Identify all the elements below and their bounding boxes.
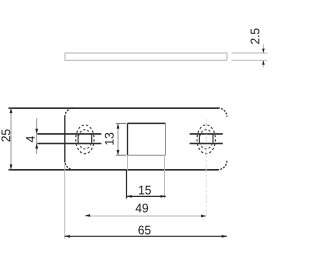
square cutout left edge [127, 123, 129, 155]
dim 65 arrow left [65, 235, 70, 238]
front view left edge [64, 116, 66, 162]
dim 49 label [136, 204, 148, 213]
right hole inner bore (dashed obround) [199, 130, 213, 149]
dim 2.5 extension line bottom [232, 59, 268, 61]
left hole inner bore (dashed obround) [78, 130, 92, 149]
square cutout right edge [165, 123, 167, 155]
dim 25 dimension line [10, 108, 12, 170]
dim 65 arrow right [222, 235, 227, 238]
square cutout bottom edge [128, 154, 166, 156]
left hole slot line bottom (serves as 4-dim extension) [37, 143, 101, 145]
right hole vertical centerline (extends to 49 dim) [205, 119, 207, 216]
dim 65 extension left (continuation of plate left edge) [64, 163, 66, 239]
dim 65 dimension line [65, 235, 227, 237]
right hole bore side walls (visible through slot) [198, 134, 200, 144]
dim 25 label [1, 129, 10, 141]
corner arc bottom-left [65, 161, 74, 170]
dim 2.5 label [251, 28, 260, 43]
square cutout top edge [128, 122, 166, 124]
dim 15 arrow right [161, 195, 166, 198]
dim 13 arrow top [117, 123, 120, 128]
dim 15 extension right [164, 155, 166, 198]
corner arc top-right [218, 108, 227, 117]
dim 15 dimension line [127, 195, 166, 197]
dim 49 arrow right [201, 215, 206, 218]
left hole bore side walls (visible through slot) [77, 134, 79, 144]
dim 13 arrow bottom [117, 150, 120, 155]
right hole slot line top [190, 133, 223, 135]
left hole slot line top (serves as 4-dim extension) [37, 133, 101, 135]
dim 4 label [26, 136, 35, 142]
dim 65 label [138, 226, 150, 235]
dim 4 arrow bottom (outside, pointing up) [35, 143, 38, 148]
dim 15 extension left (light above plate bottom, dark below) [127, 155, 129, 170]
dim 13 extension top [116, 122, 126, 124]
dim 13 dimension line [117, 123, 119, 155]
dim 13 label [105, 133, 114, 145]
dim 2.5 dimension line [262, 44, 264, 52]
dim 25 arrow bottom [10, 165, 13, 170]
dim 2.5 arrow top [262, 49, 265, 53]
corner arc top-left [65, 108, 74, 117]
dim 15 arrow left [127, 195, 132, 198]
right hole outer countersink (hidden, dashed obround) [197, 125, 215, 154]
dim 49 dimension line [85, 215, 206, 217]
dim 4 dimension line [36, 118, 38, 154]
dim 2.5 extension line top [232, 52, 268, 54]
dim 4 arrow top (outside, pointing down) [35, 129, 38, 134]
side view plate (edge view, thin rectangle) [65, 53, 227, 60]
dim 2.5 arrow bottom [262, 60, 265, 64]
dim 25 arrow top [10, 108, 13, 113]
left hole outer countersink (hidden, dashed obround) [76, 125, 94, 154]
front view bottom edge (with 25-dim extension, collinear) [9, 169, 219, 171]
dim 13 extension bottom [116, 154, 126, 156]
dim 15 label [139, 186, 151, 195]
dim 49 arrow left [85, 214, 90, 217]
corner arc bottom-right [218, 161, 227, 170]
front view top edge (with 25-dim extension, collinear) [9, 107, 219, 109]
right hole slot line bottom [190, 143, 223, 145]
